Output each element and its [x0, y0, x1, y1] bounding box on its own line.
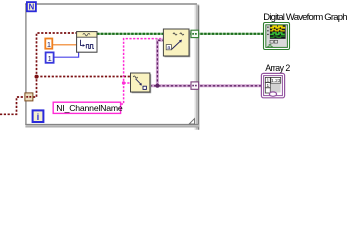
indicator terminal: Digital Waveform Graph	[264, 23, 290, 50]
tunnel green (right border)	[191, 30, 199, 37]
svg-text:Digital Waveform Graph: Digital Waveform Graph	[263, 12, 347, 23]
numeric constant 1 (orange DBL)	[45, 39, 52, 50]
wire: orange numeric wire const 1 to node1	[52, 44, 76, 46]
node U2: get digital data components VI	[131, 73, 151, 93]
numeric constant 1 (blue I32)	[46, 52, 54, 63]
svg-text:N: N	[29, 3, 35, 12]
bottom border bar	[25, 124, 199, 127]
svg-text:1: 1	[48, 54, 52, 63]
svg-text:i: i	[37, 112, 40, 123]
wire: red digital-data wire from frame-left entry up and across	[0, 33, 131, 114]
junction on red wire	[35, 75, 39, 79]
svg-text:1.23: 1.23	[271, 78, 281, 84]
left border	[25, 4, 27, 125]
node U3: analog to digital waveform VI	[163, 29, 189, 57]
wire: green digital waveform wire node3 to graph	[189, 33, 263, 35]
wire: green digital waveform wire node1 to node3	[97, 33, 164, 35]
tunnel violet (right border)	[191, 82, 199, 89]
svg-text:NI_ChannelName: NI_ChannelName	[56, 103, 123, 113]
svg-text:1: 1	[47, 40, 51, 49]
for-loop frame	[25, 4, 199, 130]
loop iteration terminal i	[33, 110, 44, 123]
loop resize corner glyph	[189, 119, 194, 124]
top border	[25, 3, 197, 5]
wire: violet digital data wire node2/node3 to Array 2	[150, 40, 261, 86]
svg-text:a: a	[167, 45, 170, 51]
indicator terminal: Array 2	[261, 73, 284, 97]
tunnel red (left border)	[25, 93, 33, 101]
string constant NI_ChannelName	[53, 102, 123, 113]
junction on violet wire	[155, 84, 159, 88]
svg-text:Array 2: Array 2	[265, 63, 290, 73]
right border bar	[195, 5, 200, 130]
wire: blue integer wire const 1 to node1	[54, 53, 79, 58]
node U1: digital pattern generator VI	[77, 32, 97, 53]
wire: pink string wire from NI_ChannelName	[121, 39, 164, 104]
loop count terminal N	[27, 2, 36, 12]
junction on pink wire	[122, 81, 125, 84]
